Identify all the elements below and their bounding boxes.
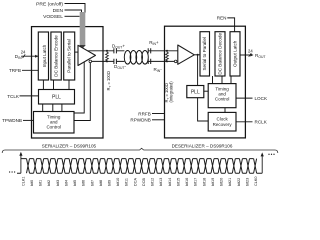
wire: RCLK output <box>236 121 253 123</box>
twisted pair cable <box>124 51 148 65</box>
svg-text:bit6: bit6 <box>82 180 86 186</box>
PLL (deserializer) <box>187 86 204 98</box>
svg-text:DESERIALIZER – DS99R106: DESERIALIZER – DS99R106 <box>172 143 233 148</box>
wire: cable to RIN+ caps <box>117 51 125 62</box>
wire: REN input <box>227 18 234 32</box>
svg-text:DEN: DEN <box>53 8 64 14</box>
svg-text:bit7: bit7 <box>90 180 94 186</box>
svg-text:REN: REN <box>217 16 227 21</box>
output latch <box>230 32 240 76</box>
continuation dots right <box>268 154 269 155</box>
svg-text:bit21: bit21 <box>228 178 232 186</box>
svg-text:TPWDNB: TPWDNB <box>2 118 22 123</box>
control bus (gray) <box>80 12 86 45</box>
svg-text:Control: Control <box>46 125 61 130</box>
dc balance decode <box>215 32 225 76</box>
svg-text:bit5: bit5 <box>73 180 77 186</box>
svg-text:VODSEL: VODSEL <box>43 14 63 20</box>
serializer block DS99R105 <box>32 27 104 138</box>
capacitor (RIN- coupling) <box>148 59 151 64</box>
svg-text:Control: Control <box>215 97 230 102</box>
svg-text:Parallel to Serial: Parallel to Serial <box>67 39 72 72</box>
waveform clk1 rising edge <box>20 155 22 173</box>
capacitor (RIN+ coupling) <box>148 48 151 53</box>
resistor RT (serializer side) <box>106 51 109 62</box>
svg-text:bit12: bit12 <box>151 178 155 186</box>
wire: VODSEL line <box>65 15 80 17</box>
svg-text:SERIALIZER – DS99R105: SERIALIZER – DS99R105 <box>42 143 97 148</box>
svg-text:bit22: bit22 <box>237 178 241 186</box>
capacitor (DOUT- coupling) <box>114 59 117 64</box>
wire: DEN line <box>65 10 82 13</box>
svg-text:RCLK: RCLK <box>255 120 268 125</box>
input latch <box>38 32 48 80</box>
svg-text:bit23: bit23 <box>245 178 249 186</box>
svg-text:bit15: bit15 <box>176 178 180 186</box>
wire: receiver out to serial-to-parallel <box>194 54 200 56</box>
wire: PLL to clock recovery <box>198 98 209 121</box>
PLL (serializer) <box>39 90 75 105</box>
svg-text:DCA: DCA <box>133 178 137 186</box>
svg-text:bit20: bit20 <box>220 178 224 186</box>
svg-text:bit3: bit3 <box>56 180 60 186</box>
wire: RPWDNB input <box>152 119 165 121</box>
svg-text:bit14: bit14 <box>168 178 172 186</box>
svg-text:LOCK: LOCK <box>255 96 268 101</box>
svg-text:CLK1: CLK1 <box>21 177 25 187</box>
wire: TCLK input <box>20 95 39 97</box>
svg-text:PLL: PLL <box>52 94 61 100</box>
svg-text:Clock: Clock <box>216 116 228 121</box>
wire: PRE line <box>65 4 86 14</box>
svg-text:DCB: DCB <box>142 178 146 186</box>
svg-text:Serial to Parallel: Serial to Parallel <box>202 37 207 70</box>
svg-text:bit2: bit2 <box>47 180 51 186</box>
receiver inverting input bubble <box>174 60 177 63</box>
wire: LOCK output <box>236 97 253 99</box>
waveform overline <box>2 148 278 153</box>
svg-text:bit10: bit10 <box>116 178 120 186</box>
deserializer block DS99R106 <box>165 26 246 138</box>
svg-text:PLL: PLL <box>191 89 200 95</box>
svg-text:TCLK: TCLK <box>7 94 20 99</box>
timing and control (deserializer) <box>208 84 236 108</box>
serial waveform eye pattern <box>17 159 262 174</box>
wire: p2s to driver <box>75 51 78 53</box>
wire: PLL to timing <box>204 90 208 92</box>
svg-text:PRE (on/off): PRE (on/off) <box>36 1 63 7</box>
svg-text:bit1: bit1 <box>39 180 43 186</box>
clock recovery <box>208 112 236 131</box>
wire: driver feedback B to timing <box>74 63 90 121</box>
receiver triangle (deserializer) <box>178 45 195 64</box>
svg-text:bit19: bit19 <box>211 178 215 186</box>
svg-text:bit4: bit4 <box>64 180 68 186</box>
svg-text:RPWDNB: RPWDNB <box>130 118 150 123</box>
svg-text:CLK0: CLK0 <box>254 177 258 187</box>
wire: driver feedback A to timing <box>74 62 84 113</box>
serial to parallel <box>200 32 210 76</box>
wire: DOUT- line <box>92 60 114 62</box>
svg-text:bit18: bit18 <box>202 178 206 186</box>
svg-text:bit13: bit13 <box>159 178 163 186</box>
waveform clk0 rising edge <box>261 156 263 173</box>
driver inverting bubble <box>89 60 92 63</box>
svg-text:TRFB: TRFB <box>9 68 21 73</box>
wire: ROUT output <box>240 54 252 56</box>
parallel to serial <box>64 32 75 80</box>
svg-text:DC Balance Decode: DC Balance Decode <box>218 33 223 75</box>
arrow: DIN into input latch <box>35 55 38 58</box>
wire: RIN- line <box>148 60 174 62</box>
svg-text:bit0: bit0 <box>30 180 34 186</box>
wire: TRFB input <box>22 69 38 71</box>
wire: receiver output node to PLL <box>197 55 199 86</box>
svg-text:bit11: bit11 <box>125 178 129 186</box>
svg-text:bit9: bit9 <box>108 180 112 186</box>
svg-text:Output Latch: Output Latch <box>233 40 238 67</box>
svg-text:24: 24 <box>248 48 253 53</box>
wire: DIN input <box>21 55 38 57</box>
waveform bit labels <box>21 177 258 187</box>
wire: s2p/decode/latch to timing stubs <box>213 76 232 84</box>
svg-text:RRFB: RRFB <box>138 111 151 116</box>
wire: timing to clock recovery stub <box>224 108 226 113</box>
wire: RRFB input <box>152 113 165 115</box>
resistor RT integrated (deserializer side) <box>166 51 169 62</box>
svg-text:24: 24 <box>21 49 26 54</box>
rotated block titles <box>42 33 237 77</box>
svg-text:bit16: bit16 <box>185 178 189 186</box>
arrow: ROUT out <box>250 54 253 57</box>
capacitor (DOUT+ coupling) <box>114 48 117 53</box>
wire: DOUT+ line <box>88 50 114 52</box>
continuation dots left <box>9 171 10 172</box>
dc balance encode (serializer) <box>51 32 61 80</box>
timing and control (serializer) <box>34 112 75 134</box>
svg-text:(Integrated): (Integrated) <box>168 81 173 103</box>
svg-text:bit8: bit8 <box>99 180 103 186</box>
wire: TPWDNB input <box>23 119 34 121</box>
svg-text:Recovery: Recovery <box>213 122 233 127</box>
svg-text:Input Latch: Input Latch <box>42 44 47 67</box>
wire: latch/encode/p2s to PLL stubs <box>43 80 69 90</box>
svg-text:DC Balance Encode: DC Balance Encode <box>54 35 59 77</box>
svg-text:bit17: bit17 <box>194 178 198 186</box>
driver triangle (serializer) <box>78 45 96 65</box>
wire: RIN+ line <box>148 50 178 52</box>
bus slash DIN <box>23 54 26 58</box>
bus slash ROUT <box>249 53 252 57</box>
node: receiver output junction <box>197 54 199 56</box>
wire: PLL to timing stubs <box>43 104 62 112</box>
